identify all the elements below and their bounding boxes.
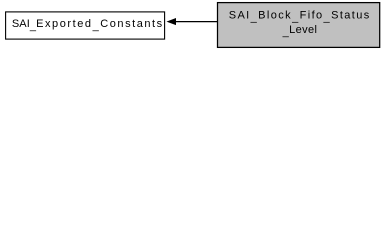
svg-text:SAI_Exported_Constants: SAI_Exported_Constants: [12, 18, 164, 32]
wire (edge line): [175, 21, 218, 23]
arrowhead: [168, 19, 176, 25]
node SAI_Exported_Constants: [6, 12, 165, 39]
svg-text:SAI_Block_Fifo_Status: SAI_Block_Fifo_Status: [229, 9, 371, 23]
svg-text:_Level: _Level: [282, 24, 318, 38]
node SAI_Block_Fifo_Status_Level (current, grey): [218, 3, 380, 48]
